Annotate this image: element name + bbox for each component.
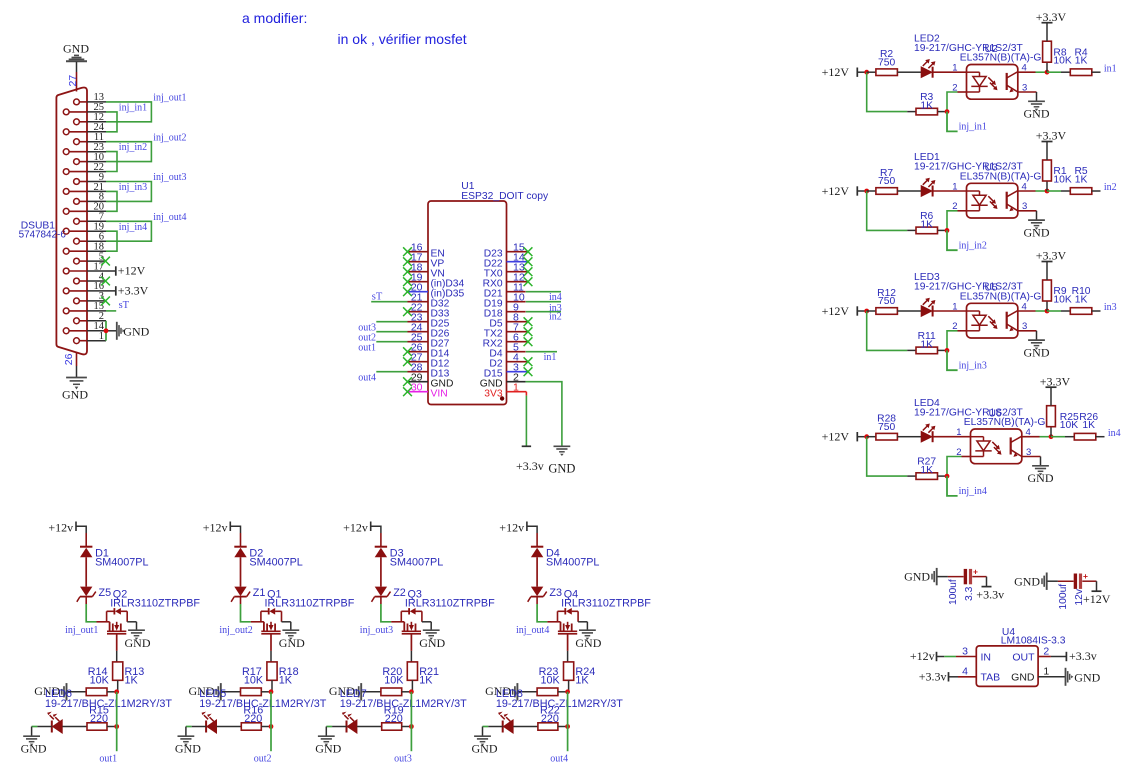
label in3 [549,303,562,314]
resistor R25 10K [1047,388,1079,437]
label inj_out4 [516,625,549,636]
ground GND (gate pulldown) [329,683,361,700]
svg-text:3: 3 [962,645,968,657]
label inj_out1 [65,625,98,636]
power +3.3v (U4 TAB) [919,669,949,683]
wire [1018,211,1037,220]
junction [864,70,869,75]
no-connect [403,307,412,316]
DSUB1 pin 11 [74,132,106,145]
svg-text:+3.3v: +3.3v [516,459,544,473]
no-connect [524,367,533,376]
svg-text:+3.3v: +3.3v [919,669,947,683]
svg-text:10K: 10K [90,675,110,687]
power +12V (in2 cell) [822,184,867,198]
wire net inj_out4 [106,221,151,241]
wire pin26 to GND [76,353,78,377]
svg-text:IRLR3110ZTRPBF: IRLR3110ZTRPBF [110,598,200,610]
svg-text:+3.3v: +3.3v [1069,649,1097,663]
U1 pin 2 GND [480,372,526,390]
svg-text:GND: GND [419,636,445,650]
junction [945,348,950,353]
svg-text:inj_in3: inj_in3 [959,361,987,372]
junction [114,689,119,694]
junction (U1 pin1 mark) [500,396,504,400]
zener Z5 [77,587,111,602]
ground GND [1024,101,1050,120]
resistor R18 1K [267,662,299,692]
svg-text:+12V: +12V [1083,592,1111,606]
svg-text:GND: GND [125,636,151,650]
label out3 [358,322,376,333]
svg-text:+12v: +12v [203,521,228,535]
wire [867,311,908,350]
svg-text:inj_in1: inj_in1 [119,103,147,114]
svg-text:+12v: +12v [499,521,524,535]
label in2 [1104,182,1117,193]
wire net in2 [1047,190,1061,192]
junction [864,434,869,439]
svg-text:220: 220 [541,713,559,725]
svg-text:750: 750 [878,176,895,187]
DSUB1 pin 1 [74,331,106,344]
wire [908,71,922,73]
U2 pin 2 [952,82,957,93]
zener Z2 [372,587,406,602]
label inj_out2 [219,625,252,636]
U1 pin 24 D26 [408,322,450,340]
ground GND (cap) [1014,573,1047,590]
wire pin27 to GND [76,62,78,92]
resistor R23 10K [519,666,568,696]
svg-text:GND: GND [575,636,601,650]
ground GND (U1 pin2) [548,446,575,475]
U1 pin 15 D23 [484,242,528,260]
ground GND (LED) [21,736,47,755]
wire net inj_in3 [947,350,958,370]
wire net inj_in3 [106,191,117,211]
svg-text:1K: 1K [920,465,933,476]
svg-text:+12V: +12V [822,430,850,444]
svg-text:GND: GND [1024,345,1050,359]
DSUB1 pin 16 [63,281,116,294]
wire net inj_in2 [947,230,958,250]
svg-text:GND: GND [123,325,149,339]
U4 pin 1 [1043,666,1049,678]
svg-text:SM4007PL: SM4007PL [95,556,148,568]
svg-text:+3.3V: +3.3V [1036,249,1067,263]
wire net inj_in4 [106,231,117,251]
power +3.3v (U1 pin1) [516,446,544,473]
junction [269,724,274,729]
zener Z1 [231,587,265,602]
DSUB1 pin 20 [63,202,106,215]
svg-text:1: 1 [1043,666,1049,678]
svg-text:out3: out3 [394,754,412,765]
ground GND (MOSFET source) [575,630,601,650]
DSUB1 pin 23 [63,142,106,155]
svg-text:sT: sT [119,300,130,311]
svg-text:10K: 10K [1053,175,1071,186]
U1 pin 14 D22 [484,252,528,270]
wire [240,557,242,586]
U4 pin 2 [1043,645,1049,657]
resistor R12 750 [867,288,908,315]
svg-text:1: 1 [952,301,957,312]
capacitor 100uf 3.3 [938,566,987,605]
no-connect [524,327,533,336]
wire [908,310,922,312]
wire net inj_in4 [947,476,958,496]
U1 pin 9 D18 [484,302,526,320]
svg-text:1K: 1K [1075,295,1088,306]
junction [269,689,274,694]
no-connect [403,257,412,266]
svg-text:GND: GND [904,570,930,584]
svg-text:GND: GND [1014,574,1040,588]
svg-text:4: 4 [962,666,968,678]
label inj_out4 [153,212,186,223]
svg-text:out4: out4 [358,372,376,383]
U2 pin 1 [952,63,957,74]
wire [947,92,967,112]
label inj_in1 [959,122,987,133]
svg-text:GND: GND [548,461,575,475]
svg-text:10K: 10K [1060,420,1078,431]
wire [537,597,547,622]
ground GND (U4) [1066,668,1101,686]
svg-text:a modifier:: a modifier: [242,10,307,26]
DSUB1 pin 6 [74,232,106,245]
zener Z3 [528,587,562,602]
no-connect [524,247,533,256]
label inj_in2 [959,241,987,252]
no-connect [403,347,412,356]
wire [1022,436,1051,438]
svg-text:220: 220 [90,713,108,725]
DSUB1 pin 3 [74,291,106,304]
wire net inj_in1 [106,112,117,132]
transistor Q1 IRLR3110ZTRPBF [251,588,355,651]
power +12v (out3 cell) [343,521,381,535]
DSUB1 pin 2 [74,311,106,324]
svg-text:750: 750 [878,422,895,433]
U2 pin 4 [1022,63,1027,74]
wire net out1 [116,692,118,751]
svg-text:inj_out2: inj_out2 [153,132,186,143]
label in3 [1104,302,1117,313]
U5 pin 2 [952,321,957,332]
wire [947,211,967,231]
svg-text:1: 1 [956,427,961,438]
U4 pin 3 [962,645,968,657]
svg-text:2: 2 [1043,645,1049,657]
wire net sT (U1 pin 21) [371,301,407,303]
svg-text:1K: 1K [279,675,293,687]
wire net inj_out3 [106,182,151,202]
wire [536,557,538,586]
svg-text:+3.3v: +3.3v [976,587,1004,601]
U5 pin 1 [952,301,957,312]
svg-text:SM4007PL: SM4007PL [546,556,599,568]
U6 pin 1 [956,427,961,438]
power +12V (in3 cell) [822,304,867,318]
svg-text:out4: out4 [550,754,568,765]
DSUB1 pin 27 number [67,75,79,87]
wire [933,436,971,438]
wire [1018,71,1047,73]
ground GND (MOSFET source) [125,630,151,650]
wire [867,72,908,111]
svg-text:+3.3V: +3.3V [1040,374,1071,388]
svg-text:5747842-6: 5747842-6 [19,230,67,241]
diode D4 SM4007PL [531,533,600,568]
svg-text:10K: 10K [244,675,264,687]
svg-text:+: + [1083,571,1088,581]
svg-text:+3.3V: +3.3V [1036,129,1067,143]
junction [945,228,950,233]
transistor Q4 IRLR3110ZTRPBF [547,588,651,651]
wire [410,651,412,662]
svg-text:inj_out2: inj_out2 [219,625,252,636]
svg-text:inj_in4: inj_in4 [119,222,147,233]
junction [409,724,414,729]
svg-text:220: 220 [244,713,262,725]
svg-text:inj_in2: inj_in2 [959,241,987,252]
svg-text:750: 750 [878,57,895,68]
wire [867,191,908,230]
wire [326,727,346,737]
LED LED1 19-217/GHC-YR1S2/3T [914,152,1023,196]
svg-text:GND: GND [279,636,305,650]
ground GND (gate pulldown) [189,683,221,700]
svg-text:inj_in4: inj_in4 [959,486,987,497]
svg-text:inj_out4: inj_out4 [153,212,186,223]
wire [32,727,52,737]
U1 pin 6 RX2 [483,332,528,350]
svg-text:in4: in4 [1108,428,1121,439]
DSUB1 pin 14 [63,321,106,334]
svg-text:GND: GND [1024,107,1050,121]
label sT [119,300,130,311]
power +3.3V [1040,374,1071,388]
U1 pin 22 D33 [408,302,450,320]
label in2 [549,312,562,323]
diode D2 SM4007PL [234,533,303,568]
wire net inj_out2 [106,142,151,162]
optocoupler U5 EL357N(B)(TA)-G [960,283,1042,338]
svg-text:+12V: +12V [822,65,850,79]
label inj_in2 [119,142,147,153]
svg-text:3.3: 3.3 [964,586,975,601]
resistor R13 1K [113,662,145,692]
svg-text:GND: GND [472,742,498,756]
resistor R5 1K [1061,166,1101,194]
U1 pin 23 D25 [408,312,450,330]
wire net in3 [1047,310,1061,312]
wire [867,437,908,476]
transistor Q2 IRLR3110ZTRPBF [97,588,201,651]
svg-text:TAB: TAB [981,672,1001,684]
wire U1 pin2 to GND [526,382,562,446]
svg-text:inj_in1: inj_in1 [959,122,987,133]
U1 pin 1 3V3 [484,382,526,400]
svg-text:ESP32_DOIT copy: ESP32_DOIT copy [461,191,549,202]
junction [945,109,950,114]
resistor R22 220 [513,705,567,731]
wire [1018,92,1037,101]
diode D1 SM4007PL [80,533,149,568]
wire [186,727,206,737]
svg-text:+12V: +12V [118,264,146,278]
junction [1049,434,1054,439]
svg-text:750: 750 [878,296,895,307]
resistor R14 10K [68,666,117,696]
label inj_in4 [959,486,987,497]
svg-text:27: 27 [67,75,79,87]
transistor Q3 IRLR3110ZTRPBF [391,588,495,651]
svg-text:1: 1 [99,331,104,342]
svg-text:GND: GND [1028,471,1054,485]
svg-text:VIN: VIN [431,388,448,399]
resistor R2 750 [867,49,908,76]
wire net out4 [567,692,569,751]
power +12v (out2 cell) [203,521,241,535]
U1 pin 13 TX0 [484,262,528,280]
svg-text:sT: sT [372,292,383,303]
svg-text:1K: 1K [1075,56,1088,67]
junction [409,689,414,694]
resistor R11 1K [907,331,947,354]
svg-text:in1: in1 [544,352,557,363]
svg-text:IN: IN [981,651,992,663]
junction [565,724,570,729]
U1 pin 20 (in)D35 [408,282,465,300]
ground GND (LED) [315,736,341,755]
label inj_out3 [153,172,186,183]
LED LED8 19-217/BHC-ZL1M2RY/3T [496,688,623,733]
power +3.3v (U4 OUT) [1066,649,1096,663]
wire [86,597,96,622]
svg-text:inj_out1: inj_out1 [153,93,186,104]
svg-text:+12V: +12V [822,184,850,198]
wire U1 pin1 3V3 [525,392,527,447]
wire (U1 right pin row) [526,301,561,303]
svg-text:10K: 10K [1053,295,1071,306]
resistor R17 10K [222,666,271,696]
ground GND (top) [63,41,89,61]
LED LED4 19-217/GHC-YR1S2/3T [914,398,1023,442]
svg-text:GND: GND [21,742,47,756]
ground GND (bottom) [62,378,88,402]
svg-text:GND: GND [63,41,89,55]
label inj_in4 [119,222,147,233]
power +3.3v [976,577,1004,602]
resistor R26 1K [1065,412,1105,440]
connector DSUB1 body [19,87,87,354]
svg-text:1K: 1K [575,675,589,687]
power +12v (out1 cell) [48,521,86,535]
wire [85,557,87,586]
svg-text:EL357N(B)(TA)-G: EL357N(B)(TA)-G [964,417,1046,428]
ground GND (LED) [175,736,201,755]
LED LED7 19-217/BHC-ZL1M2RY/3T [340,688,467,733]
svg-text:+12v: +12v [910,649,935,663]
wire (U1 right pin row) [526,311,561,313]
U2 pin 3 [1022,82,1027,93]
DSUB1 pin 26 number [63,353,75,365]
svg-text:GND: GND [175,742,201,756]
wire [947,457,971,477]
no-connect [403,247,412,256]
svg-text:GND: GND [1074,670,1100,684]
wire (U1 left pin row 24) [376,331,407,333]
svg-text:1K: 1K [419,675,433,687]
ground GND [1024,220,1050,239]
U1 pin 28 D13 [408,362,450,380]
no-connect [524,267,533,276]
wire [933,310,967,312]
LED LED3 19-217/GHC-YR1S2/3T [914,272,1023,316]
wire [937,656,977,658]
DSUB1 pin 21 [63,182,106,195]
svg-text:in4: in4 [549,292,562,303]
svg-text:1K: 1K [1082,420,1095,431]
wire net in4 [1051,436,1065,438]
svg-text:EL357N(B)(TA)-G: EL357N(B)(TA)-G [960,53,1042,64]
svg-text:26: 26 [63,353,75,365]
power +12v (U4 IN) [910,649,937,663]
resistor R15 220 [62,705,116,731]
U1 pin 5 D4 [489,342,525,360]
DSUB1 pin 25 [63,102,106,115]
wire net in1 [1047,71,1061,73]
no-connect [403,287,412,296]
U6 pin 2 [956,447,961,458]
label out3 [394,754,412,765]
svg-text:10K: 10K [540,675,560,687]
svg-text:1: 1 [513,382,519,394]
U5 pin 4 [1022,301,1027,312]
label out4 [550,754,568,765]
regulator U4 LM1084IS-3.3 [976,627,1065,687]
svg-text:1K: 1K [920,101,933,112]
U1 pin 26 D14 [408,342,450,360]
svg-text:in3: in3 [1104,302,1117,313]
label inj_in3 [959,361,987,372]
no-connect [524,317,533,326]
U1 pin 30 VIN [408,382,448,400]
wire [1018,310,1047,312]
svg-text:out1: out1 [99,754,117,765]
U6 pin 3 [1026,447,1031,458]
label out2 [358,333,376,344]
svg-text:out1: out1 [358,343,376,354]
U5 pin 3 [1022,321,1027,332]
DSUB1 pin 17 [63,261,116,274]
wire [567,651,569,662]
ground GND [1024,340,1050,359]
svg-text:inj_out3: inj_out3 [153,172,186,183]
ground GND (cap) [904,568,937,585]
power +12V (in1 cell) [822,65,867,79]
no-connect [524,257,533,266]
wire [908,436,922,438]
svg-text:10K: 10K [1053,56,1071,67]
svg-text:IRLR3110ZTRPBF: IRLR3110ZTRPBF [561,598,651,610]
U1 pin 7 TX2 [484,322,528,340]
U4 pin 4 [962,666,968,678]
